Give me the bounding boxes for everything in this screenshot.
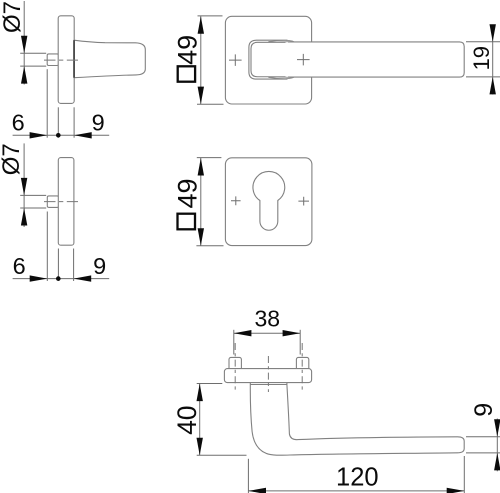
arrow 49 F4 bottom (down)	[198, 228, 204, 246]
svg-text:49: 49	[172, 35, 202, 65]
centerline F2	[44, 201, 78, 203]
arrow 120 left	[248, 488, 266, 493]
svg-text:19: 19	[469, 46, 494, 70]
svg-text:6: 6	[12, 109, 25, 135]
svg-text:38: 38	[255, 305, 281, 331]
dim line 9 F5	[496, 419, 498, 472]
svg-text:49: 49	[172, 178, 202, 208]
arrow 38 left	[234, 330, 252, 336]
arrow 9 top (down)	[494, 419, 500, 437]
arrow Ø7 F2 top (down)	[21, 178, 27, 196]
arrow 49 F4 top (up)	[198, 158, 204, 176]
svg-text:9: 9	[470, 403, 498, 417]
handle U-end inner F3	[251, 42, 286, 76]
dot F2	[56, 276, 61, 281]
spindle stub F2	[47, 196, 58, 208]
dim line 120 F5	[248, 490, 464, 492]
arrow 6 F2 (right)	[30, 275, 48, 281]
arrow 40 top (up)	[197, 384, 203, 402]
arrow Ø7 F1 bottom (up)	[21, 66, 27, 84]
rose F2 (side view)	[58, 158, 74, 246]
screw cross left F3	[229, 54, 242, 66]
dim line 6/9 F2	[13, 278, 110, 280]
svg-text:Ø7: Ø7	[0, 1, 26, 33]
arrow 40 bottom (down)	[197, 438, 203, 456]
rose plate F5 (side view)	[224, 369, 311, 383]
square symbol F4	[178, 214, 196, 230]
arrow 49 F3 bottom (down)	[198, 87, 204, 105]
extension lines 19 F3	[466, 41, 500, 43]
handle U-end outer F3	[249, 40, 288, 79]
extension lines 38 F5	[233, 330, 235, 355]
svg-text:Ø7: Ø7	[0, 143, 25, 175]
extension lines 120 F5	[247, 459, 249, 493]
screw cross left F4	[231, 196, 241, 205]
centerline spindle F5	[267, 356, 269, 392]
svg-text:40: 40	[172, 405, 202, 434]
dark doubled edge rose/cone F1	[73, 40, 75, 77]
svg-text:6: 6	[13, 253, 26, 279]
wrap edge sliver top F3	[268, 40, 293, 42]
square symbol F3	[178, 66, 195, 81]
centerline F1	[44, 59, 78, 61]
screw cross right F4	[298, 197, 309, 206]
dim line 49 F3	[200, 16, 202, 104]
dim line 40 F5	[199, 384, 201, 456]
extension lines 49 F3	[198, 15, 223, 17]
square rose F4	[225, 158, 312, 246]
extension lines 9 F5	[466, 436, 500, 438]
spindle stub F1	[47, 54, 58, 66]
arrow 19 top (down)	[490, 24, 496, 42]
lever bar white fill F3	[267, 42, 464, 77]
extension lines Ø7 F2	[20, 194, 46, 196]
arrow 49 F3 top (up)	[198, 16, 204, 34]
screw post right F5	[296, 357, 308, 370]
extension lines 6/9 F2	[46, 212, 48, 282]
svg-text:9: 9	[92, 109, 105, 135]
dim line 38 F5	[234, 332, 300, 334]
square rose F3	[225, 16, 311, 104]
arrow 6 F1 (right)	[30, 132, 48, 138]
handle neck cone F1	[74, 40, 145, 77]
screw cross right F3	[297, 54, 310, 66]
dim line 49 F4	[200, 158, 202, 246]
extension lines Ø7 F1	[20, 52, 46, 54]
arrow Ø7 F2 bottom (up)	[21, 208, 27, 226]
lever bar outline F3	[288, 42, 464, 77]
neck collar line F5	[251, 383, 287, 385]
arrow 9 F1 (left)	[74, 132, 92, 138]
arrow 9 F2 (left)	[74, 275, 92, 281]
dim line 19 F3	[492, 25, 494, 95]
arrow Ø7 F1 top (down)	[21, 36, 27, 54]
rose F1 (side view)	[58, 16, 74, 104]
screw post left F5	[229, 357, 241, 370]
extension lines 6/9 F1	[46, 69, 48, 138]
svg-text:9: 9	[93, 253, 106, 279]
PZ cylinder hole F4	[253, 171, 285, 230]
handle body F5	[250, 383, 464, 456]
dot F1	[56, 133, 61, 138]
svg-text:120: 120	[336, 463, 379, 491]
dim line 6/9 F1	[13, 134, 110, 136]
arrow 19 bottom (up)	[490, 77, 496, 95]
arrow 120 right	[447, 488, 465, 493]
arrow 9 bottom (up)	[494, 453, 500, 471]
extension lines 40 F5	[197, 383, 223, 385]
centerline screw right F5	[301, 343, 303, 391]
arrow 38 right	[283, 330, 301, 336]
dim line Ø7 F2	[23, 143, 25, 227]
dim line Ø7 F1	[23, 1, 25, 85]
wrap edge sliver bottom F3	[268, 77, 293, 79]
centerline screw left F5	[234, 343, 236, 391]
extension lines 49 F4	[197, 157, 222, 159]
